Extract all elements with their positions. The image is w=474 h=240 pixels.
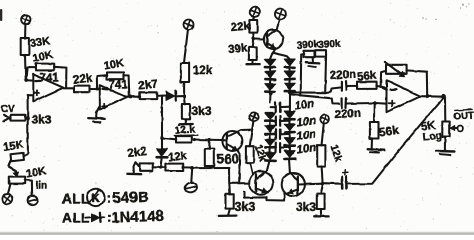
svg-text:56k: 56k xyxy=(357,69,378,83)
svg-text:3k3: 3k3 xyxy=(296,200,316,214)
svg-text:K: K xyxy=(92,193,101,205)
svg-text:39k: 39k xyxy=(228,42,249,56)
svg-text:lin: lin xyxy=(36,181,48,192)
svg-text:CV: CV xyxy=(1,104,15,115)
svg-text:3k3: 3k3 xyxy=(235,200,256,214)
svg-text:22k: 22k xyxy=(73,72,94,86)
svg-text:2k7: 2k7 xyxy=(138,78,159,92)
svg-text:12k: 12k xyxy=(193,63,213,77)
svg-text:56k: 56k xyxy=(378,123,400,140)
svg-text:560: 560 xyxy=(217,152,240,167)
svg-text:3k3: 3k3 xyxy=(192,104,212,118)
svg-text:22k: 22k xyxy=(230,20,251,34)
svg-text:549B: 549B xyxy=(112,189,149,207)
svg-text:Log: Log xyxy=(422,130,442,144)
svg-text:1N4148: 1N4148 xyxy=(111,208,164,227)
svg-text:ALL: ALL xyxy=(62,192,90,207)
svg-text:3k3: 3k3 xyxy=(32,113,52,127)
svg-text:390k: 390k xyxy=(318,38,341,51)
svg-text:220n: 220n xyxy=(330,69,357,82)
svg-text:220n: 220n xyxy=(335,108,362,121)
svg-text:OUT: OUT xyxy=(453,110,474,122)
svg-text:741: 741 xyxy=(109,80,129,92)
svg-text::: : xyxy=(107,190,112,206)
svg-text:2k2: 2k2 xyxy=(127,146,147,160)
svg-text:741: 741 xyxy=(40,73,60,85)
